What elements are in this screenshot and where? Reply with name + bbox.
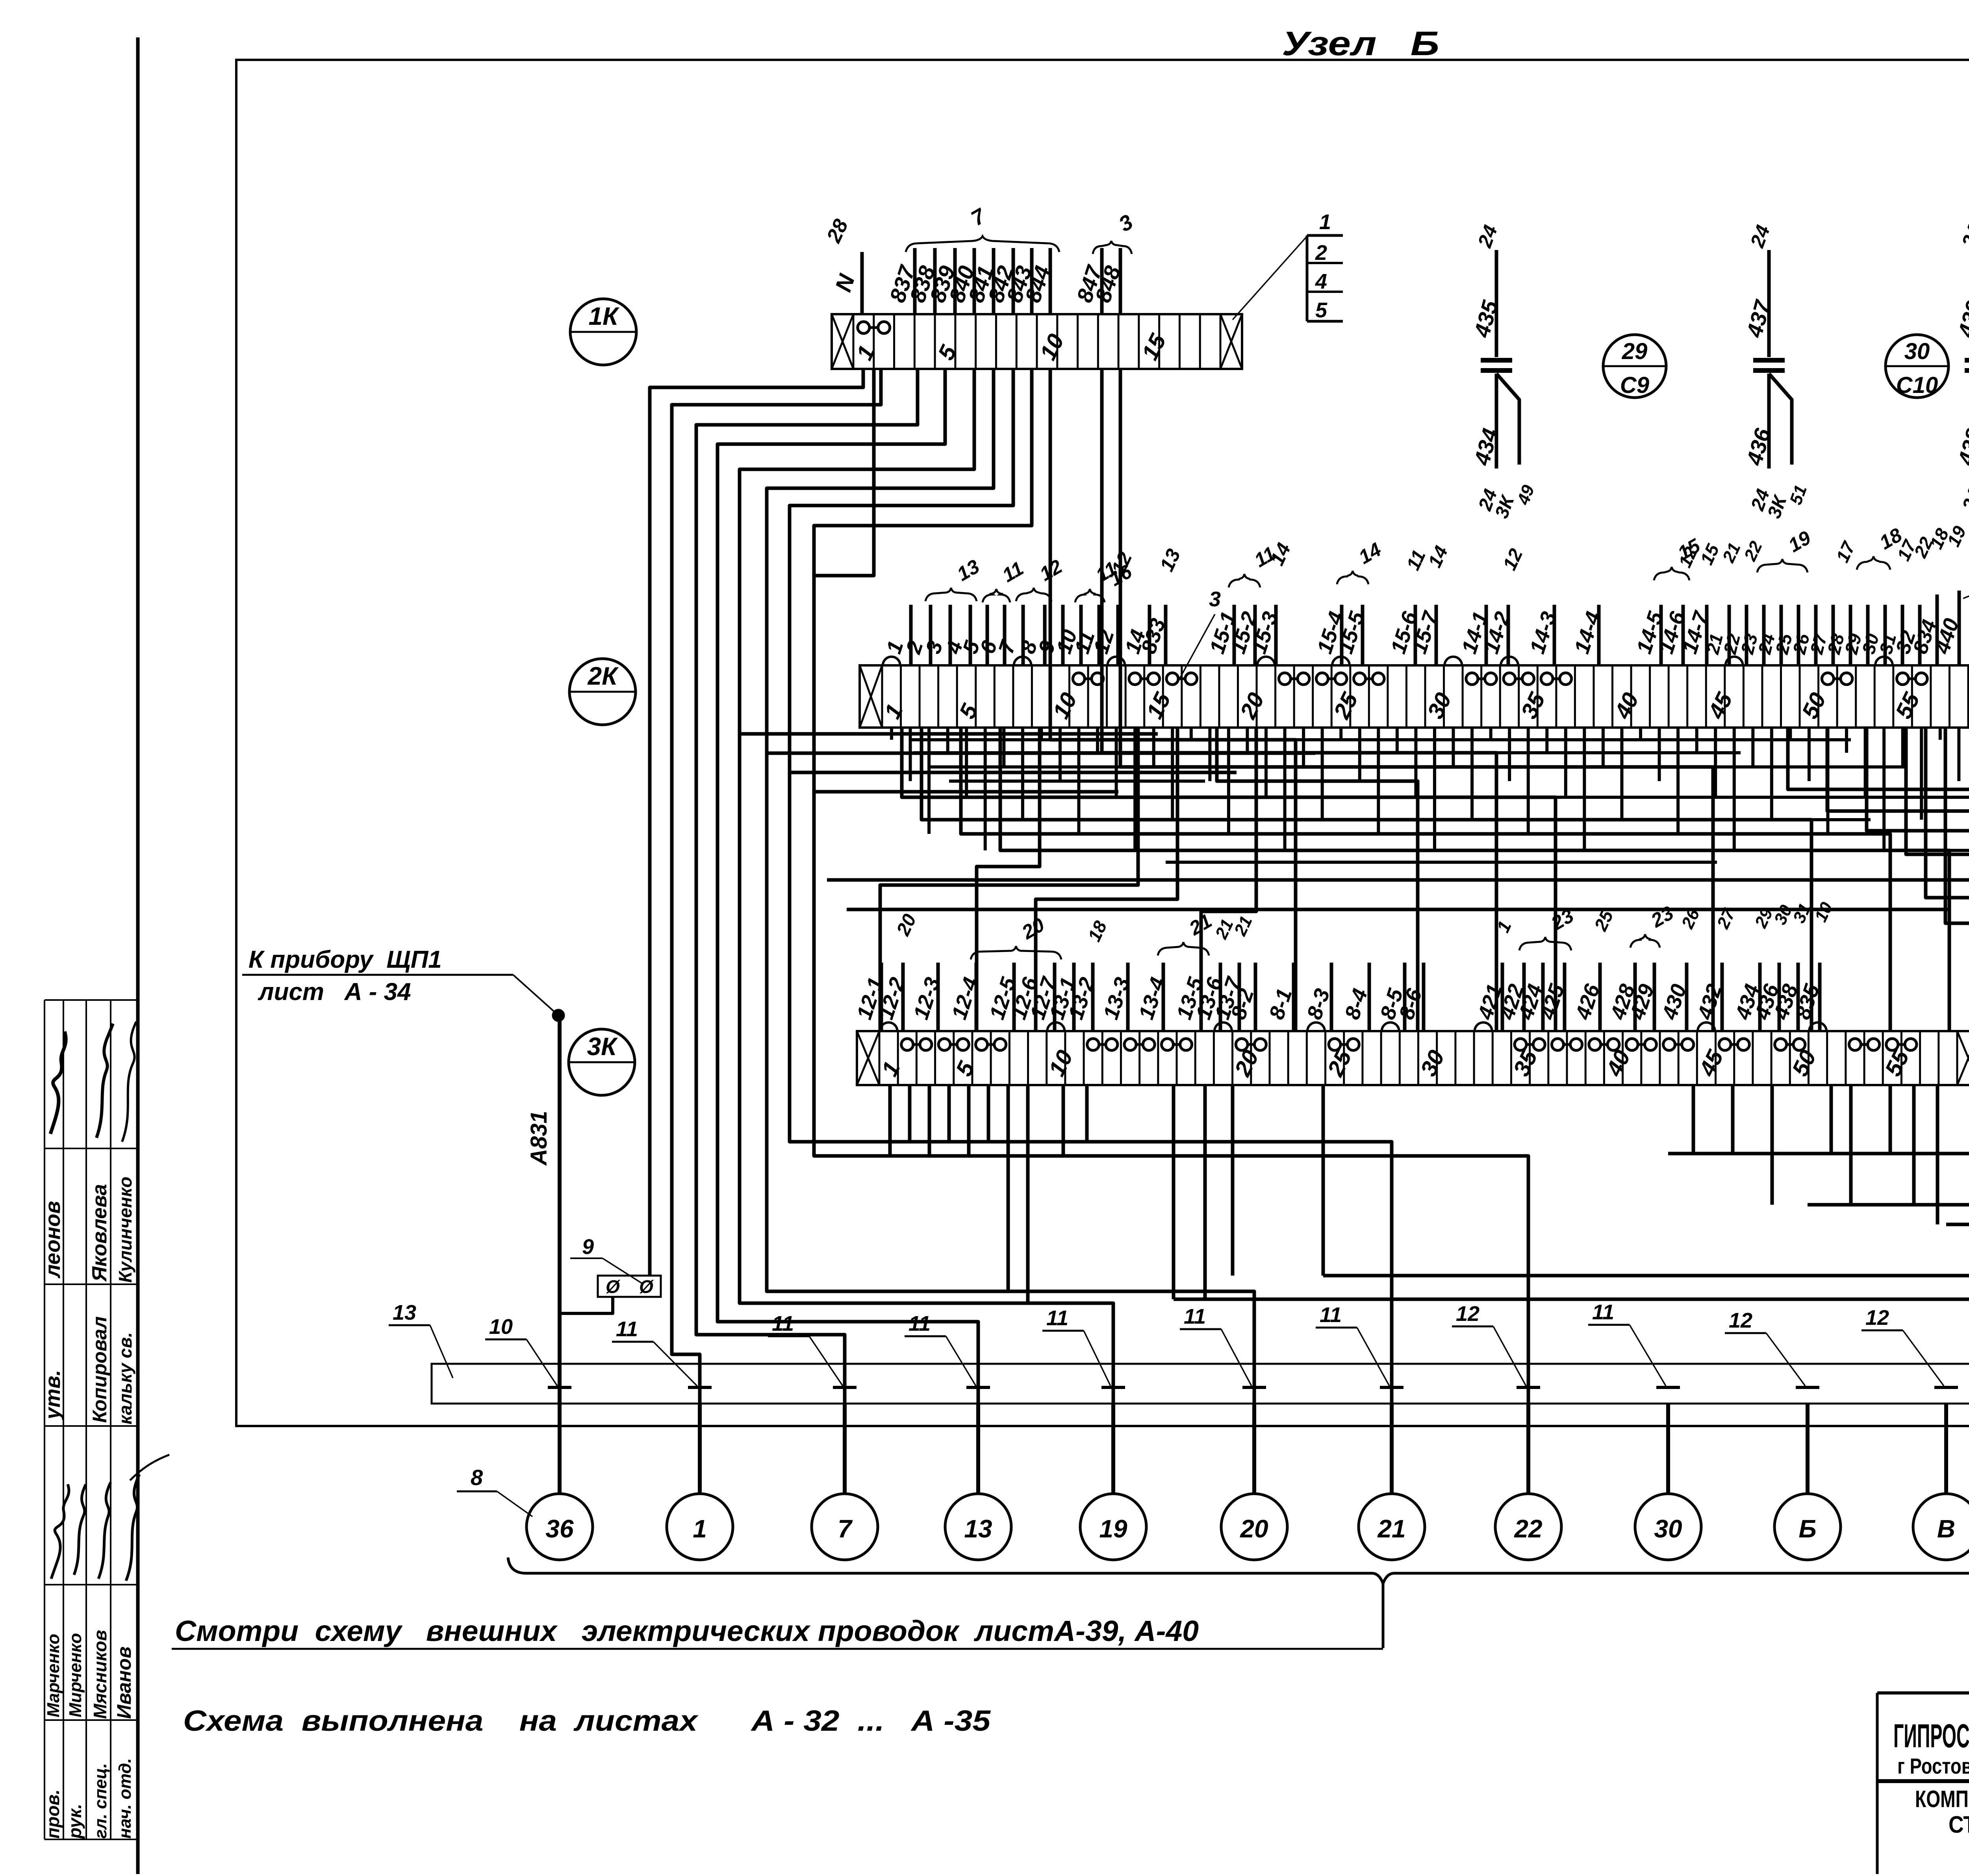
- wire 426 into 3K: [1571, 963, 1605, 1031]
- wire 14-2 into 2K: [1479, 605, 1515, 665]
- wire 12-6 into 3K: [1007, 963, 1042, 1031]
- wire 841 into 1K: [963, 248, 998, 314]
- wire stub from 2K: [1695, 728, 1698, 753]
- wire stub from 2K: [927, 728, 931, 834]
- wire stub from 2K: [1901, 728, 1904, 767]
- cable label 27 over 3K wire 432: [1713, 905, 1739, 932]
- wire stub from 3K bottom: [1026, 1085, 1030, 1303]
- svg-text:С9: С9: [1620, 372, 1649, 398]
- wire 430 into 3K: [1658, 963, 1691, 1031]
- wire 2K to 3K: [921, 728, 1811, 1031]
- wire A831 to circle 36: [526, 1015, 560, 1494]
- cable label 1 over 3K wire 421: [1493, 918, 1515, 935]
- tray cable label 11: [905, 1312, 976, 1386]
- svg-text:утв.: утв.: [41, 1370, 65, 1420]
- wire from 1K left harness: [672, 369, 881, 1494]
- wire 15-3 into 2K: [1247, 605, 1282, 665]
- cable label 29 over 3K wire 434: [1751, 905, 1777, 931]
- cable label 12 over 2K wire 14-6: [1674, 544, 1702, 571]
- wire 8-2 into 3K: [1226, 963, 1258, 1031]
- wire from 1K left harness: [767, 369, 1254, 1494]
- cable label 12 over 2K wire 12: [1107, 548, 1136, 578]
- bus wire: [929, 765, 1906, 769]
- wire stub from 2K: [909, 728, 912, 781]
- wire 5 into 2K: [958, 605, 987, 665]
- svg-text:СТАНЦИЯ: СТАНЦИЯ: [1949, 1811, 1969, 1838]
- wire stub from 3K bottom: [1936, 1085, 1939, 1224]
- terminal circle 36: [527, 1494, 593, 1560]
- wire 13-3 into 3K: [1099, 963, 1134, 1031]
- wire stub from 2K: [1433, 728, 1436, 850]
- wire 8-5 into 3K: [1376, 963, 1407, 1031]
- cable brace 20 over 3K wires 12-4..12-7: [971, 913, 1061, 959]
- wire drop to circle 21: [1390, 1404, 1394, 1494]
- svg-text:Схема выполнена на листах: Схема выполнена на листах А - 32 ... А -…: [183, 1704, 991, 1737]
- wire 1K-848 drop to bus: [1120, 369, 1713, 1031]
- cable label 21 over 3K wire 13-6: [1211, 916, 1237, 942]
- wire 11 into 2K: [1070, 605, 1099, 665]
- capacitor C9: [1469, 222, 1538, 521]
- wire 12 into 2K: [1089, 605, 1119, 665]
- tick on wire 1 in tray: [688, 1386, 712, 1389]
- terminal circle В: [1913, 1494, 1969, 1560]
- svg-text:30: 30: [1904, 339, 1930, 364]
- cable label 15 over 2K wire 14-7: [1696, 541, 1723, 568]
- title block frame: [1877, 1693, 1969, 1874]
- wire 15-6 into 2K: [1386, 605, 1422, 665]
- wire stub from 2K: [1714, 728, 1717, 797]
- terminal circle 21: [1359, 1494, 1425, 1560]
- wire 8-1 into 3K: [1264, 963, 1296, 1031]
- tick on wire 19 in tray: [1101, 1386, 1125, 1389]
- svg-text:5: 5: [1315, 298, 1327, 322]
- svg-text:1К: 1К: [589, 302, 620, 330]
- wire 14-3 into 2K: [1525, 605, 1561, 665]
- tray cable label 10: [485, 1315, 557, 1386]
- wire 12-2 into 3K: [874, 963, 909, 1031]
- terminal circle Б: [1774, 1494, 1841, 1560]
- svg-text:11: 11: [616, 1317, 638, 1341]
- sheet border left: [136, 37, 140, 1874]
- wire stub from 2K: [1377, 728, 1380, 834]
- wire stub from 2K: [1302, 728, 1305, 767]
- wire 32 into 2K: [1891, 605, 1920, 665]
- tray cable label 11: [1588, 1300, 1666, 1386]
- wire 13-6 into 3K: [1191, 963, 1227, 1031]
- svg-text:3К: 3К: [587, 1032, 618, 1061]
- wire 1K-844 drop to bus: [1050, 369, 1296, 1031]
- tick on wire 21 in tray: [1380, 1386, 1404, 1389]
- svg-text:гл. спец.: гл. спец.: [91, 1763, 110, 1839]
- wire 4 into 2K: [941, 605, 970, 665]
- wire 438 into 3K: [1769, 963, 1802, 1031]
- svg-text:пров.: пров.: [43, 1789, 63, 1839]
- wire 23 into 2K: [1737, 605, 1764, 665]
- wire stub from 2K: [1470, 728, 1474, 820]
- wire stub from 2K: [1545, 728, 1548, 753]
- wire stub from 3K bottom: [1062, 1085, 1065, 1156]
- svg-text:11: 11: [908, 1312, 931, 1335]
- tick on wire 7 in tray: [833, 1386, 857, 1389]
- title block city line: [1897, 1754, 1969, 1778]
- reference table rows 1/2/4/5: [1307, 210, 1343, 322]
- wire drop to circle 30: [1666, 1404, 1670, 1494]
- wire stub from 2K: [965, 728, 968, 797]
- svg-text:2: 2: [1315, 241, 1327, 265]
- svg-text:11: 11: [1184, 1305, 1206, 1328]
- wire stub from 2K: [1770, 728, 1773, 820]
- bus wire: [1166, 861, 1717, 864]
- wire 2K to 3K: [977, 728, 1040, 1031]
- svg-text:нач. отд.: нач. отд.: [115, 1758, 135, 1839]
- wire stub from 2K: [946, 728, 949, 753]
- wire hook around 3K right: [1906, 728, 1969, 1246]
- wire 12-1 into 3K: [852, 963, 888, 1031]
- cable label 26 over 3K wire 430: [1678, 906, 1704, 932]
- wire stub from 2K: [1208, 728, 1211, 781]
- wire 844 into 1K: [1020, 248, 1055, 314]
- wire stub from 2K: [1246, 728, 1249, 753]
- leader 6 to 2K right end: [1963, 541, 1969, 598]
- cable label 11 over 2K wire 15-6: [1403, 547, 1430, 574]
- wire from 1K left harness: [650, 369, 863, 1276]
- wire drop to circle 13: [976, 1404, 980, 1494]
- wire drop to circle В: [1944, 1404, 1948, 1494]
- note: diagram made on sheets: [183, 1704, 991, 1737]
- wire 2K to 3K: [961, 728, 1890, 1031]
- signature table row: prov ruk gl.spets nach.otd: [43, 1758, 135, 1839]
- svg-text:20: 20: [1240, 1515, 1268, 1543]
- svg-text:11: 11: [1320, 1303, 1342, 1327]
- wire stub from 2K: [1676, 728, 1680, 834]
- svg-text:11: 11: [1046, 1306, 1068, 1330]
- wire stub from 3K bottom: [947, 1085, 951, 1142]
- wire 15-5 into 2K: [1333, 605, 1369, 665]
- wire 8-6 into 3K: [1394, 963, 1426, 1031]
- svg-text:Яковлева: Яковлева: [88, 1184, 111, 1282]
- signature table row: Leonov Yakovleva Kulinchenko: [41, 1177, 135, 1283]
- tick on wire Б in tray: [1796, 1386, 1819, 1389]
- wire stub from 3K bottom: [1889, 1085, 1892, 1154]
- wire stub from 2K: [1077, 728, 1081, 834]
- cable label 21 over 3K wire 13-7: [1230, 913, 1256, 939]
- wire 7 into 2K: [994, 605, 1023, 665]
- cable label 31 over 3K wire 438: [1789, 900, 1815, 926]
- wire stub from 3K bottom: [908, 1085, 912, 1142]
- tray cable label 11: [1180, 1305, 1251, 1386]
- cable label 22 over 2K wire 31: [1910, 534, 1937, 561]
- wire 2K to 3K: [902, 728, 1556, 1031]
- bus wire: [914, 751, 1741, 754]
- tray cable label 11: [1042, 1306, 1111, 1386]
- cable label 17 over 2K wire 27: [1832, 538, 1860, 566]
- wire 13-2 into 3K: [1064, 963, 1099, 1031]
- cable brace 7 over 1K wires: [906, 204, 1059, 252]
- wire hook around 3K right: [1808, 728, 1969, 1205]
- svg-text:Ø: Ø: [606, 1276, 621, 1297]
- wire 842 into 1K: [983, 248, 1018, 314]
- wire drop to circle Б: [1806, 1404, 1810, 1494]
- signature table row: approvals signatures: [50, 1022, 136, 1142]
- cable label 12 over 2K wire 14-2: [1499, 546, 1527, 574]
- wire stub from 2K: [1002, 728, 1005, 767]
- cable tray: [432, 1364, 1969, 1404]
- svg-text:рук.: рук.: [65, 1804, 85, 1839]
- tick on wire 22 in tray: [1517, 1386, 1540, 1389]
- bus from harness east 1: [740, 732, 1158, 736]
- wire stub from 3K bottom: [1692, 1085, 1695, 1154]
- svg-text:36: 36: [545, 1515, 574, 1543]
- wire 429 into 3K: [1625, 963, 1659, 1031]
- signature table row: Marchenko Mirchenko Myasnikov Ivanov: [44, 1630, 135, 1719]
- cable label 21 over 2K wire 21: [1719, 540, 1745, 566]
- label 8 with leader to circle 36: [457, 1465, 532, 1517]
- wire 436 into 3K: [1750, 963, 1784, 1031]
- cable brace 11 over 2K wires 15-1,15-2: [1229, 542, 1279, 587]
- wire stub from 2K: [1602, 728, 1605, 767]
- cable brace 15 over 2K wires 14-4,14-5: [1654, 534, 1704, 580]
- bus wire: [949, 780, 1205, 783]
- wire stub from 2K: [1939, 728, 1942, 740]
- svg-text:13: 13: [393, 1301, 416, 1324]
- wire 838 into 1K: [905, 248, 940, 314]
- cable label 10 over 3K wire 835: [1811, 899, 1837, 925]
- wire stub from 2K: [1339, 728, 1342, 740]
- wire stub from 2K: [1527, 728, 1530, 834]
- tray cable label 11: [612, 1317, 697, 1386]
- svg-text:Копировал: Копировал: [89, 1316, 111, 1423]
- wire 22 into 2K: [1719, 605, 1747, 665]
- wire hook around 3K right: [1323, 728, 1969, 1276]
- wire 425 into 3K: [1535, 963, 1569, 1031]
- terminal circle 19: [1080, 1494, 1146, 1560]
- wire stub from 3K bottom: [1007, 1085, 1010, 1291]
- cable label 17 over 2K wire 30: [1893, 536, 1921, 564]
- leader to A831: [513, 975, 558, 1015]
- cable brace 23 over 3K wires 428-429: [1630, 902, 1677, 948]
- signature table grid: [44, 1000, 138, 1839]
- bus wire: [969, 796, 1969, 799]
- wire from 1K left harness: [696, 369, 918, 1494]
- bus from harness east 3: [790, 771, 1237, 774]
- wire stub from 3K bottom: [1849, 1085, 1853, 1205]
- wire hook around 3K right: [1174, 728, 1969, 1299]
- wire stub from 2K: [1059, 728, 1062, 781]
- wire 14-6 into 2K: [1654, 605, 1690, 665]
- wire N into 1K: [822, 216, 862, 314]
- svg-text:9: 9: [582, 1235, 594, 1259]
- cable label 14 over 2K wire 15-7: [1424, 543, 1452, 571]
- tick on wire В in tray: [1934, 1386, 1958, 1389]
- designator circle 29 / C9: [1603, 335, 1666, 398]
- wire 15-1 into 2K: [1205, 605, 1240, 665]
- splice box item 9: [598, 1276, 661, 1297]
- terminal block 3K designator circle: [569, 1029, 635, 1095]
- wire stub from 3K bottom: [1830, 1085, 1833, 1154]
- svg-text:21: 21: [1377, 1515, 1405, 1543]
- cable label 18 over 3K wire 13-2: [1084, 918, 1111, 945]
- svg-text:19: 19: [1099, 1515, 1127, 1543]
- wire stub from 2K: [1115, 728, 1118, 797]
- wire hook around 3K right: [1867, 728, 1969, 1224]
- title block object name: [1915, 1786, 1969, 1812]
- svg-text:А831: А831: [526, 1111, 552, 1166]
- wire stub from 2K: [1845, 728, 1848, 753]
- wire 1 into 2K: [882, 605, 911, 665]
- wire stub from 2K: [1227, 728, 1230, 834]
- wire 10 into 2K: [1052, 605, 1082, 665]
- wire drop to circle 1: [698, 1404, 702, 1494]
- tray cable label 12: [1725, 1309, 1805, 1386]
- wire 21 into 2K: [1702, 605, 1729, 665]
- wire 835 into 3K: [1791, 963, 1824, 1031]
- svg-text:3: 3: [1209, 587, 1221, 611]
- terminal circle 1: [667, 1494, 733, 1560]
- wire 9 into 2K: [1034, 605, 1063, 665]
- wire from splice box to A831: [562, 1297, 613, 1313]
- svg-text:КОМПРЕССОРНАЯ: КОМПРЕССОРНАЯ: [1915, 1786, 1969, 1812]
- wire stub from 2K: [1358, 728, 1361, 781]
- bus wire: [1044, 832, 1587, 835]
- wire stub from 2K: [890, 728, 893, 740]
- wire 2K to 3K: [1000, 728, 1949, 1031]
- leader to reference table: [1233, 236, 1307, 320]
- terminal block 2K: [860, 657, 1969, 728]
- wire 8-4 into 3K: [1340, 963, 1372, 1031]
- wire 432 into 3K: [1693, 963, 1726, 1031]
- svg-text:Смотри схему внешних элек: Смотри схему внешних электрических прово…: [175, 1615, 1199, 1647]
- node: junction dot to ShchP1: [552, 1009, 565, 1022]
- svg-text:29: 29: [1622, 339, 1648, 364]
- wire 848 into 1K: [1090, 248, 1125, 314]
- terminal block 1K: [832, 314, 1242, 369]
- wire 421 into 3K: [1473, 963, 1507, 1031]
- terminal circle 7: [812, 1494, 878, 1560]
- note: see external wiring diagram: [172, 1615, 1383, 1649]
- svg-text:12: 12: [1865, 1306, 1889, 1330]
- svg-text:12: 12: [1729, 1309, 1752, 1332]
- wire stub from 2K: [1021, 728, 1024, 820]
- cable brace 11 over 2K wires 5-6: [983, 557, 1027, 602]
- svg-text:4: 4: [1315, 270, 1327, 293]
- wire 424 into 3K: [1514, 963, 1547, 1031]
- svg-text:Иванов: Иванов: [113, 1646, 135, 1719]
- svg-text:леонов: леонов: [41, 1201, 65, 1279]
- wire stub 3K bottom to hook: [1322, 1085, 1325, 1276]
- wire 24 into 2K: [1754, 605, 1781, 665]
- cable label 22 over 2K wire 22: [1740, 538, 1766, 564]
- wire 12-3 into 3K: [909, 963, 944, 1031]
- wire drop to circle 20: [1252, 1404, 1256, 1494]
- svg-text:К прибору ЩП1: К прибору ЩП1: [248, 946, 442, 973]
- title: Uzel B: [1282, 25, 1439, 63]
- capacitor C10: [1741, 222, 1811, 521]
- wire 834 into 2K: [1909, 594, 1941, 665]
- wire 843 into 1K: [1001, 248, 1036, 314]
- cable brace 18 over 2K wires 28-29: [1857, 524, 1906, 570]
- wire stub from 3K bottom: [1912, 1085, 1916, 1205]
- wire stub 3K bottom to hook: [1172, 1085, 1175, 1299]
- wire stub from 2K: [984, 728, 987, 850]
- bus wire: [910, 738, 1851, 741]
- wire 440 into 2K: [1930, 591, 1963, 665]
- label K priboru ShchP1 / list A-34: [242, 946, 513, 1006]
- tray cable label 11: [768, 1312, 843, 1386]
- cable brace 13 over 2K wires 2-4: [925, 555, 983, 601]
- tick on wire 13 in tray: [966, 1386, 990, 1389]
- wire 2 into 2K: [901, 605, 931, 665]
- cable brace 21 over 3K wires 13-4..13-5: [1158, 909, 1216, 956]
- wire 6 into 2K: [975, 605, 1005, 665]
- gathering brace under circles: [508, 1557, 1969, 1648]
- bus from harness east 4: [814, 790, 1118, 794]
- wire stub from 3K bottom: [928, 1085, 931, 1156]
- wire stub from 2K: [1564, 728, 1567, 797]
- wire 15-2 into 2K: [1226, 605, 1261, 665]
- wire stub from 3K bottom: [888, 1085, 892, 1156]
- svg-text:7: 7: [838, 1515, 853, 1543]
- wire stub from 2K: [1658, 728, 1661, 781]
- cable label 19 over 2K wire 834: [1943, 523, 1969, 550]
- wire 2K to 3K: [1201, 728, 1256, 1031]
- bus wire: [1063, 849, 1969, 852]
- wire 13-1 into 3K: [1045, 963, 1080, 1031]
- wire stub from 2K: [1283, 728, 1287, 850]
- svg-text:2К: 2К: [588, 662, 619, 690]
- wire 30 into 2K: [1858, 605, 1885, 665]
- bus from harness east 2: [767, 752, 1315, 755]
- wire stub from 2K: [1620, 728, 1623, 820]
- svg-text:11: 11: [772, 1312, 794, 1335]
- terminal circle 22: [1495, 1494, 1561, 1560]
- svg-text:лист А - 34: лист А - 34: [258, 978, 411, 1006]
- wire 1K-847 drop to bus: [1102, 369, 1496, 1031]
- wire stub from 2K: [1152, 728, 1155, 767]
- cable label 18 over 2K wire 32: [1926, 525, 1953, 552]
- wire stub from 3K bottom: [1203, 1085, 1207, 1299]
- wire stub from 2K: [1096, 728, 1099, 753]
- svg-text:С10: С10: [1896, 372, 1938, 398]
- terminal circle 20: [1221, 1494, 1287, 1560]
- title block org name: [1893, 1717, 1969, 1754]
- cable brace 3 over 1K wires: [1093, 210, 1137, 254]
- wire 422 into 3K: [1495, 963, 1528, 1031]
- wire 14-5 into 2K: [1632, 605, 1668, 665]
- wire stub from 2K: [1190, 728, 1193, 740]
- wire stub from 3K bottom: [1731, 1085, 1735, 1154]
- tick on wire 20 in tray: [1242, 1386, 1266, 1389]
- svg-text:10: 10: [489, 1315, 513, 1339]
- wire drop to circle 36: [558, 1404, 562, 1494]
- svg-text:1: 1: [693, 1515, 707, 1543]
- wire stub from 2K: [1396, 728, 1399, 753]
- wire stub from 2K: [1639, 728, 1642, 740]
- svg-text:22: 22: [1514, 1515, 1542, 1543]
- wire drop to circle 19: [1111, 1404, 1115, 1494]
- wire stub from 2K: [1508, 728, 1511, 781]
- wire stub from 3K bottom: [1085, 1085, 1089, 1142]
- svg-text:г Ростов-на-Дону 1976г: г Ростов-на-Дону 1976г: [1897, 1754, 1969, 1778]
- wire stub from 2K: [1583, 728, 1586, 850]
- cable brace 19 over 2K wires 23-25: [1757, 526, 1815, 572]
- wire 28 into 2K: [1823, 605, 1850, 665]
- wire from 1K left harness: [718, 369, 978, 1494]
- title block thick divider: [1877, 1779, 1969, 1783]
- wire 29 into 2K: [1841, 605, 1868, 665]
- tray cable label 13: [389, 1301, 453, 1378]
- tick on wire 30 in tray: [1656, 1386, 1680, 1389]
- wire 27 into 2K: [1806, 605, 1833, 665]
